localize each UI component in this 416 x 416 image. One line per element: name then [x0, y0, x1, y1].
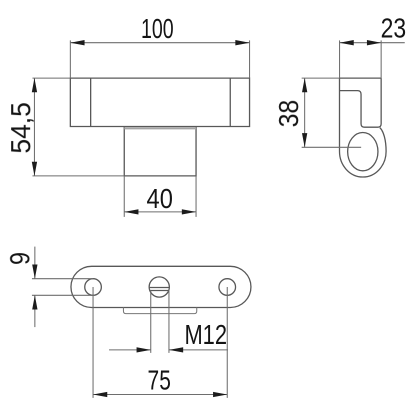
- dim 40 extension line right: [195, 176, 197, 217]
- dim 38 arrow top: [302, 78, 307, 92]
- dim 100 extension line left: [69, 40, 71, 78]
- dim 75 extension line left: [92, 287, 94, 398]
- dim 23 arrow right: [367, 40, 381, 45]
- side view right edge and slot contour: [340, 78, 382, 127]
- dim M12 extension line right: [168, 290, 170, 353]
- dim 75 dimension line: [93, 394, 227, 396]
- dim 40 extension line left: [123, 176, 125, 217]
- dim 75 arrow left: [93, 392, 107, 397]
- top view left hole: [85, 279, 102, 296]
- side view left edge and outer loop: [340, 78, 387, 177]
- front view lower block outline: [124, 127, 196, 176]
- dim 54,5 arrow bottom: [32, 162, 37, 176]
- svg-text:M12: M12: [184, 319, 227, 350]
- dim 100 arrow left: [70, 40, 84, 45]
- top view hidden block bracket: [123, 308, 196, 314]
- dim 9 dimension line lower: [34, 295, 36, 327]
- top view screw head circle: [149, 277, 169, 297]
- front view upper block left inner edge: [90, 78, 92, 126]
- dim M12 arrow left-pointing: [169, 347, 183, 352]
- dim 100 extension line right: [249, 40, 251, 78]
- dim 9 arrow down: [32, 265, 37, 279]
- dim 40 arrow right: [182, 209, 196, 214]
- dim 9 dimension line upper: [34, 247, 36, 279]
- dim 54,5 dimension line: [33, 78, 35, 176]
- dim 100 dimension line: [70, 42, 249, 44]
- dim M12 arrow right-pointing: [137, 347, 151, 352]
- svg-text:38: 38: [273, 100, 304, 128]
- dim 38 arrow bottom: [302, 133, 307, 147]
- dim M12 leader right: [169, 349, 228, 351]
- side view inner hole ellipse: [348, 133, 378, 171]
- svg-text:100: 100: [141, 13, 174, 44]
- dim 23 arrow left: [340, 40, 354, 45]
- side view top edge: [340, 77, 382, 79]
- dim 23 extension line left: [339, 40, 341, 78]
- dim 23 dimension line: [340, 42, 405, 44]
- dim 54,5 extension line top: [32, 77, 70, 79]
- dim 9 arrow up: [32, 295, 37, 309]
- dim M12 extension line left: [150, 290, 152, 353]
- top view stadium outline: [71, 266, 251, 307]
- svg-text:75: 75: [148, 365, 171, 396]
- top view screw slot upper line: [149, 287, 169, 289]
- dim 100 arrow right: [235, 40, 249, 45]
- top view right hole: [219, 279, 236, 296]
- svg-text:9: 9: [4, 252, 35, 265]
- dim 23 extension line right: [380, 40, 382, 78]
- dim 38 extension line top: [302, 77, 340, 79]
- dim 9 extension line top: [32, 278, 93, 280]
- dim 75 arrow right: [213, 392, 227, 397]
- dim 54,5 arrow top: [32, 78, 37, 92]
- dim 75 extension line right: [226, 287, 228, 398]
- dim 40 arrow left: [124, 209, 138, 214]
- front view seam line (grey): [124, 127, 196, 129]
- dim 9 extension line bottom: [32, 294, 95, 296]
- svg-text:23: 23: [381, 13, 407, 44]
- dim 40 dimension line: [124, 211, 196, 213]
- svg-text:54,5: 54,5: [5, 102, 36, 153]
- svg-text:40: 40: [147, 183, 173, 214]
- dim 38 extension line bottom: [302, 146, 362, 148]
- top view screw slot lower line: [149, 290, 169, 292]
- dim 54,5 extension line bottom: [32, 175, 124, 177]
- front view upper block right inner edge: [229, 78, 231, 126]
- dim 38 dimension line: [304, 78, 306, 147]
- dim M12 leader left: [109, 349, 151, 351]
- front view upper block outline: [70, 78, 249, 126]
